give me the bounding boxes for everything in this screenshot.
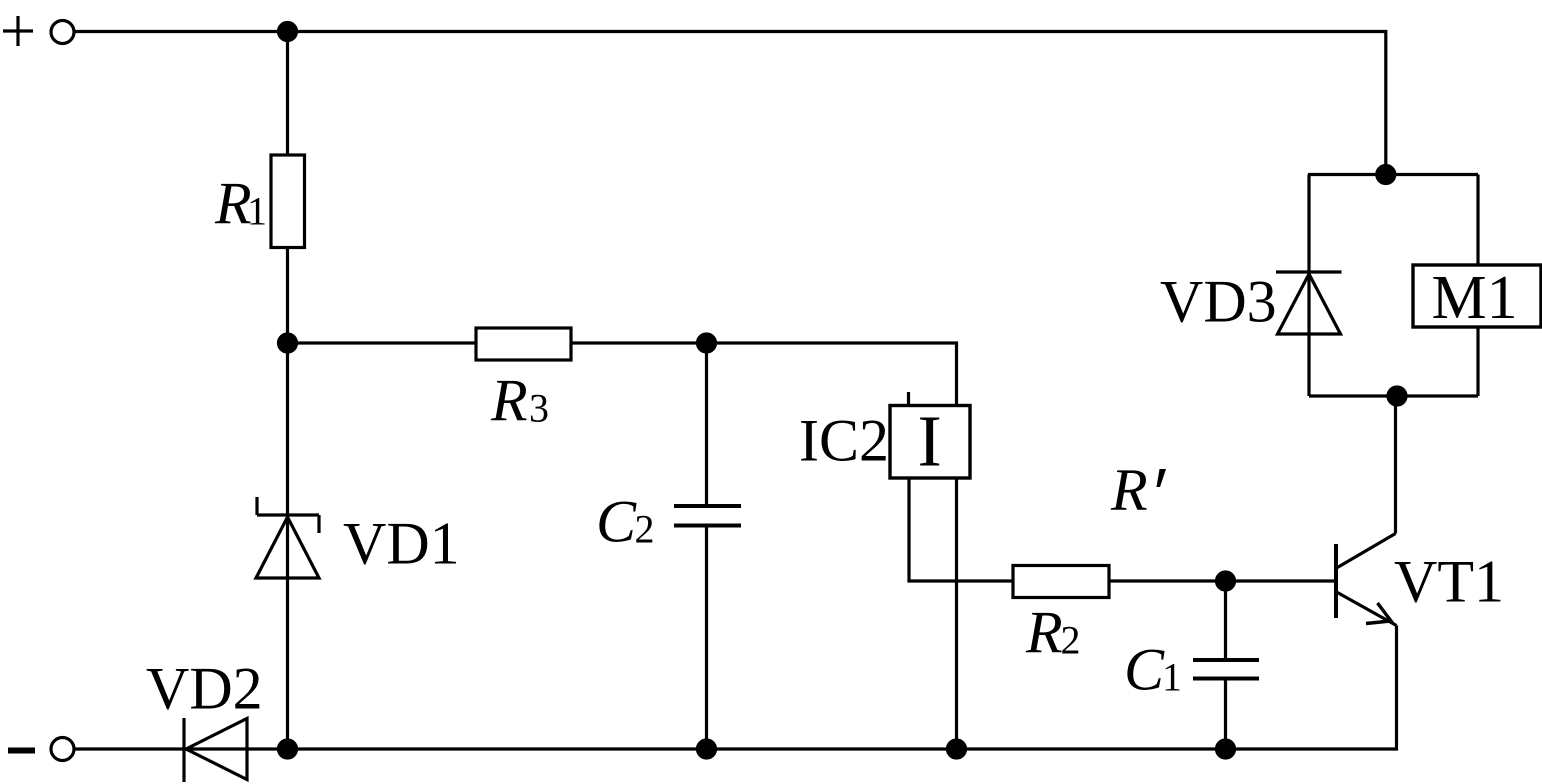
svg-text:I: I (918, 401, 942, 482)
svg-text:VT1: VT1 (1394, 549, 1504, 615)
capacitor C1 (1193, 660, 1259, 679)
wire collector vertical (1394, 396, 1397, 534)
svg-text:C: C (596, 489, 637, 555)
svg-text:2: 2 (635, 507, 655, 552)
svg-text:VD1: VD1 (343, 511, 460, 577)
wire motor block bottom bar (1309, 394, 1478, 397)
svg-text:R: R (1110, 457, 1148, 523)
node C1 top junction (1217, 572, 1235, 590)
svg-text:2: 2 (1061, 618, 1081, 663)
node C2 bottom junction (698, 740, 716, 758)
wire C2 upper lead (705, 343, 708, 505)
diode VD2 (184, 718, 247, 782)
wire bottom rail (76, 626, 1397, 750)
svg-text:VD3: VD3 (1160, 269, 1277, 335)
svg-text:M1: M1 (1432, 264, 1518, 332)
wire VD3 upper lead (1307, 175, 1310, 397)
motor M1 box (1413, 265, 1541, 327)
svg-text:R: R (490, 368, 528, 434)
wire mid horizontal to R3 (288, 341, 477, 344)
terminal plus (3, 16, 74, 46)
node bottom-left junction (279, 740, 297, 758)
diode VD1 zener (256, 497, 319, 578)
wire IC2 left leg (909, 478, 1013, 581)
svg-text:R: R (1025, 600, 1063, 666)
resistor R1 (271, 155, 305, 248)
svg-text:3: 3 (529, 386, 549, 431)
wire base (1109, 579, 1336, 582)
wire left vertical middle (286, 248, 289, 750)
node top-left junction (279, 23, 297, 41)
wire M1 upper lead (1476, 175, 1479, 266)
node IC2 bottom junction (948, 740, 966, 758)
terminal minus (8, 738, 74, 761)
wire IC2 right leg (955, 478, 958, 749)
wire C1 lower lead (1224, 681, 1227, 750)
wire left vertical upper (286, 32, 289, 156)
svg-text:C: C (1124, 637, 1165, 703)
wire M1 lower lead (1476, 327, 1479, 396)
node motor top junction (1377, 166, 1395, 184)
IC IC2 box (890, 406, 970, 479)
capacitor C2 (674, 506, 741, 526)
diode VD3 (1276, 272, 1342, 334)
svg-text:1: 1 (247, 189, 267, 234)
wire mid horizontal to IC2 corner (571, 343, 957, 406)
transistor VT1 (1336, 534, 1397, 626)
node left mid junction (279, 334, 297, 352)
svg-text:VD2: VD2 (146, 656, 263, 722)
resistor R3 (476, 328, 571, 360)
resistor R2 (1013, 566, 1109, 598)
pin mark IC2 top (907, 392, 910, 404)
wire C2 lower lead (705, 528, 708, 750)
wire motor block top bar (1308, 173, 1478, 176)
node motor bottom junction (1388, 387, 1406, 405)
node C2 top junction (698, 334, 716, 352)
svg-text:1: 1 (1162, 655, 1182, 700)
wire top rail (76, 32, 1386, 175)
svg-text:IC2: IC2 (799, 408, 889, 474)
node C1 bottom junction (1217, 740, 1235, 758)
svg-text:R: R (214, 171, 252, 237)
wire C1 upper lead (1224, 581, 1227, 658)
